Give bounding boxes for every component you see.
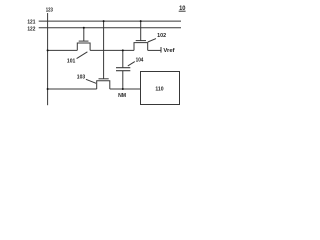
wire node NM segment left (123 to 103): [48, 88, 97, 90]
junction dot cap104 top on N1: [122, 49, 124, 51]
label NM: [118, 93, 126, 99]
block 110: [141, 72, 180, 105]
svg-text:101: 101: [67, 59, 76, 65]
transistor 102: [134, 21, 148, 50]
junction dot 123-N1: [47, 49, 49, 51]
svg-text:102: 102: [157, 33, 167, 39]
label 110: [155, 87, 164, 93]
junction dot 123-NM: [47, 88, 49, 90]
svg-text:Vref: Vref: [163, 48, 174, 54]
wire line 122 horizontal: [39, 27, 181, 29]
label 103 with leader: [77, 75, 96, 84]
svg-text:110: 110: [155, 87, 164, 93]
node label 122: [27, 26, 36, 32]
wire net 123 vertical: [47, 13, 49, 105]
label 104 with leader: [128, 58, 144, 66]
terminal Vref bar: [160, 47, 162, 53]
underline of figure label 10: [179, 10, 186, 12]
wire node N1 segment right (102 to Vref terminal): [148, 49, 161, 51]
junction dot gate101 on 122: [83, 27, 85, 29]
wire node N1 segment middle (101 to 102): [90, 49, 134, 51]
figure label 10: [179, 5, 186, 12]
wire node NM segment right (103 to block 110): [110, 88, 141, 90]
transistor 103: [97, 79, 110, 89]
svg-text:121: 121: [27, 19, 36, 25]
svg-text:122: 122: [27, 26, 36, 32]
junction dot cap104 bottom on NM: [122, 88, 124, 90]
label Vref: [163, 48, 174, 54]
label 101 with leader: [67, 52, 88, 65]
svg-text:NM: NM: [118, 93, 126, 99]
svg-text:103: 103: [77, 75, 86, 81]
svg-text:104: 104: [136, 58, 144, 64]
wire line 121 horizontal: [39, 20, 181, 22]
label 102 with leader: [148, 33, 167, 42]
transistor 101: [77, 28, 90, 51]
junction dot gate103 on 121: [103, 20, 105, 22]
node label 121: [27, 19, 36, 25]
transistor 103 gate vertical from line 121: [103, 21, 105, 79]
node label 123: [46, 8, 54, 14]
svg-text:123: 123: [46, 8, 54, 14]
capacitor 104: [116, 50, 130, 89]
wire node N1 segment left (123 to 101): [48, 49, 78, 51]
junction dot gate102 on 121: [140, 20, 142, 22]
